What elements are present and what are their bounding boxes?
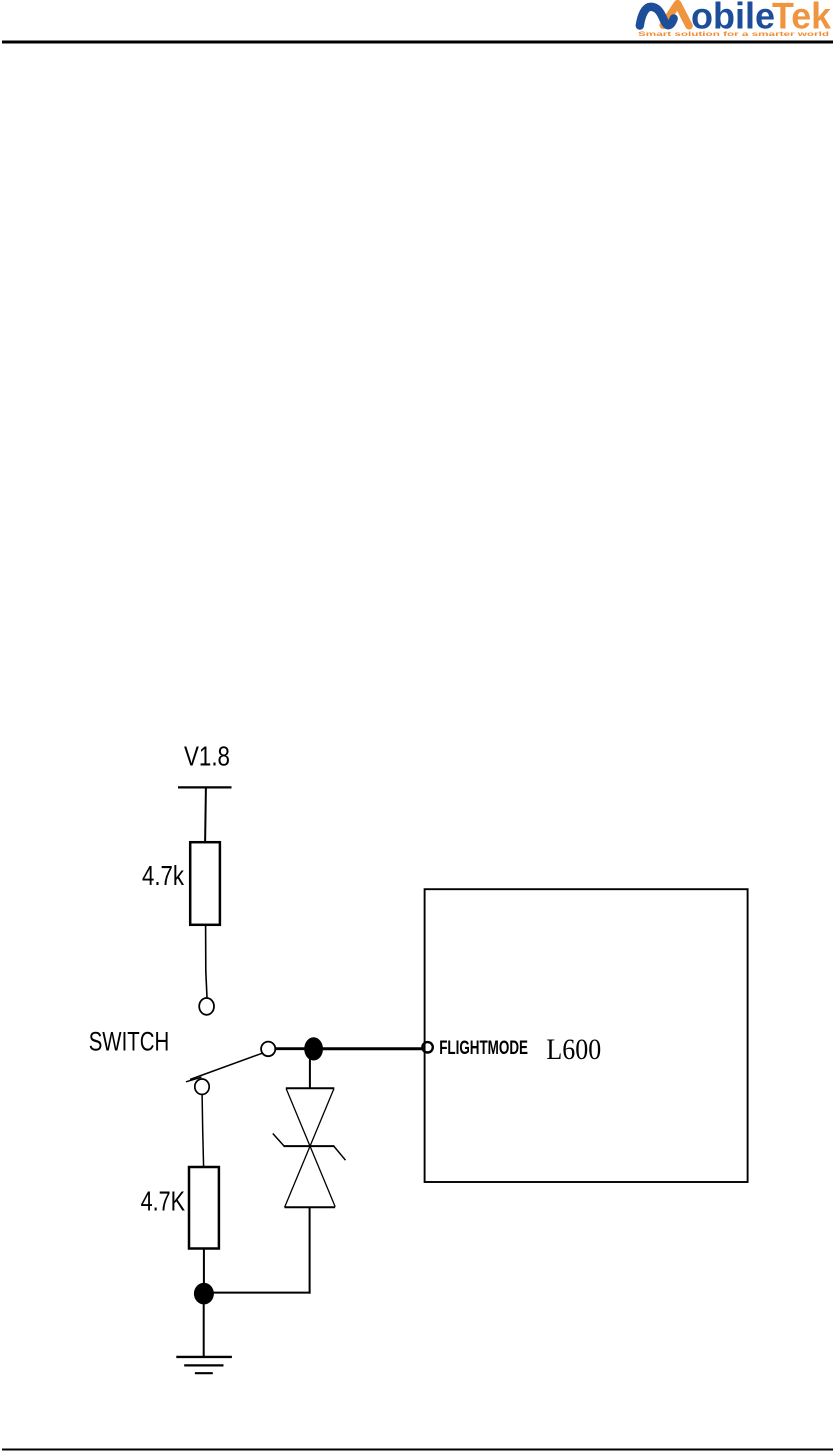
wire bottom horizontal to junction B [212, 1292, 311, 1294]
TVS diode D1 zener bar [284, 1145, 335, 1147]
wire R1 to switch top contact [206, 925, 207, 998]
switch top contact circle [199, 998, 214, 1015]
TVS D1 bar left tick [273, 1134, 284, 1147]
IC U1 box L600 [425, 889, 748, 1182]
ground symbol [176, 1357, 232, 1373]
logo orange peak (M middle) [663, 4, 689, 26]
pin circle FLIGHTMODE [422, 1042, 432, 1052]
switch left contact circle [195, 1079, 209, 1094]
junction dot B [194, 1283, 214, 1305]
svg-text:4.7K: 4.7K [141, 1185, 186, 1216]
resistor R2 [189, 1167, 219, 1249]
wire junction A to TVS D1 [309, 1057, 311, 1088]
switch right contact circle [261, 1042, 275, 1057]
wire junction B to ground [203, 1303, 205, 1357]
TVS diode D1 top edge [286, 1087, 335, 1089]
wire left contact to R2 [202, 1095, 204, 1168]
header rule [2, 41, 833, 44]
footer rule [2, 1449, 833, 1451]
wire rail to R1 [204, 788, 207, 843]
power rail V1.8 bar [178, 786, 232, 788]
svg-text:Smart solution for a smarter w: Smart solution for a smarter world [638, 31, 829, 38]
svg-text:4.7k: 4.7k [142, 860, 185, 891]
switch arm [190, 1053, 262, 1079]
TVS diode D1 diagonal 2 [285, 1089, 334, 1208]
svg-text:FLIGHTMODE: FLIGHTMODE [439, 1038, 528, 1059]
resistor R1 [190, 842, 220, 925]
junction dot A [304, 1037, 323, 1060]
wire right contact to junction A [275, 1047, 306, 1050]
svg-text:SWITCH: SWITCH [89, 1026, 170, 1056]
TVS diode D1 diagonal 1 [286, 1089, 335, 1207]
svg-text:V1.8: V1.8 [184, 741, 230, 772]
wire junction A to FLIGHTMODE pin [320, 1047, 422, 1050]
wire TVS bottom down [309, 1208, 311, 1294]
TVS diode D1 bottom edge [285, 1206, 336, 1208]
MobileTek logo [638, 0, 831, 38]
switch arm overshoot [186, 1077, 202, 1082]
TVS D1 bar right tick [334, 1146, 346, 1160]
svg-text:L600: L600 [546, 1033, 601, 1066]
logo blue wave (M left hump) [640, 7, 674, 26]
wire R2 to junction B [203, 1249, 205, 1286]
